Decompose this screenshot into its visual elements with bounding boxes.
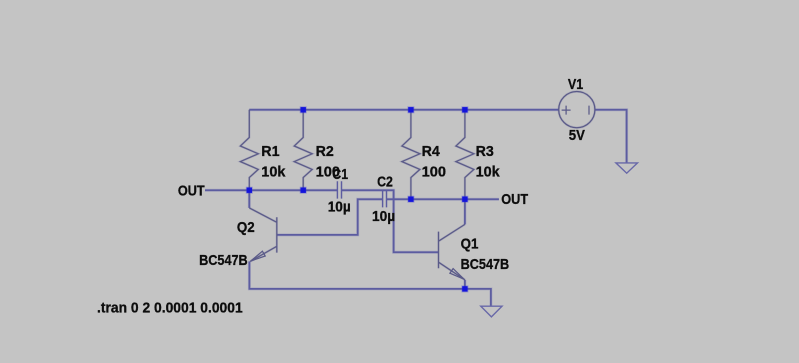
capacitor C2 — [383, 191, 387, 208]
wire top power rail right segment to ground drop — [595, 110, 627, 163]
svg-text:Q2: Q2 — [237, 219, 255, 236]
wire OUT left to C1 left plate — [205, 189, 337, 192]
resistor R4 — [402, 110, 420, 199]
junction rail / R2 top — [300, 106, 307, 113]
svg-text:10k: 10k — [476, 164, 501, 181]
wire Q2 emitter to bottom rail to ground — [249, 261, 491, 306]
svg-text:V1: V1 — [568, 76, 583, 93]
voltage source V1 — [559, 92, 595, 128]
svg-text:10µ: 10µ — [372, 208, 395, 225]
junction rail / R3 top — [461, 106, 468, 113]
ground at bottom rail — [481, 306, 502, 317]
resistor R3 — [456, 110, 474, 199]
wire top power rail left segment — [249, 108, 559, 111]
junction bottom rail / Q1 emitter — [461, 285, 468, 292]
ground below V1 — [616, 163, 638, 173]
svg-text:.tran 0 2 0.0001 0.0001: .tran 0 2 0.0001 0.0001 — [97, 300, 243, 317]
wire Q1 emitter lead — [463, 280, 466, 289]
svg-text:10k: 10k — [261, 164, 286, 181]
wire Q2 base to C2 left plate — [277, 199, 383, 235]
wire C1 right plate to Q1 base — [341, 190, 438, 252]
svg-text:BC547B: BC547B — [199, 252, 248, 269]
wire Q2 collector lead — [248, 190, 251, 208]
resistor R2 — [294, 110, 312, 190]
svg-text:10µ: 10µ — [328, 199, 351, 216]
svg-text:BC547B: BC547B — [461, 256, 510, 273]
svg-text:OUT: OUT — [501, 191, 528, 208]
svg-text:R4: R4 — [422, 143, 441, 160]
svg-text:OUT: OUT — [178, 183, 205, 200]
junction node OUT left / R2 bottom — [300, 187, 307, 194]
transistor Q2 — [249, 208, 276, 262]
svg-text:C2: C2 — [377, 174, 393, 191]
transistor Q1 — [439, 224, 466, 280]
wire C2 right plate to OUT right — [386, 198, 499, 201]
wire Q1 collector lead — [463, 199, 466, 224]
svg-text:R3: R3 — [476, 143, 494, 160]
svg-text:5V: 5V — [569, 127, 585, 144]
capacitor C1 — [337, 181, 341, 198]
svg-text:C1: C1 — [332, 166, 348, 183]
svg-text:R1: R1 — [261, 143, 279, 160]
junction node OUT right / R3 bottom / Q1 collector — [461, 196, 468, 203]
svg-text:100: 100 — [422, 164, 447, 181]
junction node OUT left / R1 / Q2 collector — [246, 187, 253, 194]
resistor R1 — [240, 110, 258, 190]
junction node OUT right / R4 bottom — [407, 196, 414, 203]
svg-text:R2: R2 — [316, 143, 334, 160]
junction rail / R4 top — [407, 106, 414, 113]
svg-text:Q1: Q1 — [461, 236, 479, 253]
